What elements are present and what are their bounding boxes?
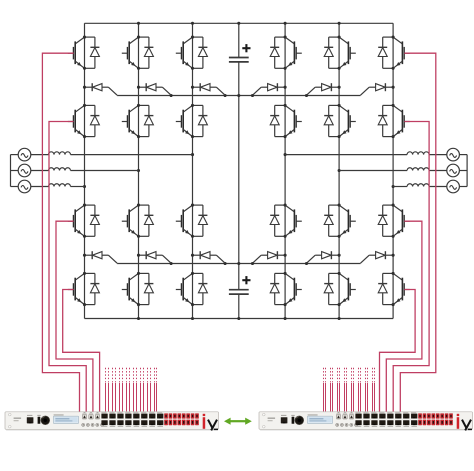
inductor L6 [407,184,429,187]
wire: right phase line 1 to leg [285,154,407,156]
wire: phase leg 6 vertical [392,23,394,318]
clamp diode D3 [191,83,225,95]
wire: left phase line 3 to leg [71,186,85,188]
wire: left phase line 2 [31,170,49,172]
wire: right phase line 2 to leg [339,170,407,172]
clamp diode D1 [83,83,117,95]
clamp diode D4 [253,83,287,95]
clamp diode D11 [307,251,341,263]
IGBT Q21 with freewheel diode [176,272,208,306]
wire: right source stub phase 3 [459,186,467,188]
IGBT Q18 with freewheel diode [378,204,410,238]
wire: phase leg 5 vertical [338,23,340,318]
controller unit 1 (left rack controller) [5,412,219,431]
IGBT Q1 with freewheel diode [68,36,100,70]
AC source V3 [18,180,31,193]
wire: left source stub phase 3 [11,186,19,188]
AC source V4 [447,148,460,161]
wire: DC-link center branch [238,23,240,57]
node: top rail junctions [137,22,341,25]
IGBT Q24 with freewheel diode [378,272,410,306]
IGBT Q17 with freewheel diode [324,204,356,238]
clamp diode D5 [307,83,341,95]
node: neutral bus junctions [170,94,309,265]
node: phase connection points [83,153,395,188]
capacitor C2 (lower DC-link) [229,276,251,294]
wire: gate drive signal right row 4 (red) [380,290,416,412]
clamp diode D8 [137,251,171,263]
wire: phase leg 2 vertical [138,23,140,318]
IGBT Q8 with freewheel diode [122,104,154,138]
wire: left source stub phase 2 [11,170,19,172]
wire: upper neutral bus [117,95,360,97]
IGBT Q23 with freewheel diode [324,272,356,306]
clamp diode D7 [83,251,117,263]
wire: phase leg 3 vertical [192,23,194,318]
wire: lower neutral bus [117,263,360,265]
IGBT Q14 with freewheel diode [122,204,154,238]
clamp diode D9 [191,251,225,263]
IGBT Q16 with freewheel diode [270,204,302,238]
wire: left phase line 3 [31,186,49,188]
wire: left source common bus [10,155,12,187]
wire: gate drive signal left row 2 (red) [49,122,86,412]
clamp diode D10 [253,251,287,263]
capacitor C1 (upper DC-link) [229,44,251,62]
wire: right source common bus [466,155,468,187]
wire: right phase line 2 [429,170,447,172]
wire: left phase line 1 [31,154,49,156]
wire: DC+ top rail [85,22,394,24]
clamp diode D6 [361,83,395,95]
wire: gate drive signal left row 1 (red) [42,53,79,412]
inductor L2 [49,168,71,171]
IGBT Q4 with freewheel diode [270,36,302,70]
wire: gate drive signal left row 4 (red) [63,290,100,412]
IGBT Q19 with freewheel diode [68,272,100,306]
green synchronization arrow [224,418,252,425]
wire: left phase line 2 to leg [71,170,139,172]
AC source V2 [18,164,31,177]
IGBT Q2 with freewheel diode [122,36,154,70]
wire: right phase line 3 to leg [393,186,407,188]
IGBT Q22 with freewheel diode [270,272,302,306]
inductor L5 [407,168,429,171]
wire: phase leg 4 vertical [284,23,286,318]
wire: phase leg 1 vertical [84,23,86,318]
wire: right phase line 1 [429,154,447,156]
wire: gate drive signal left row 3 (red) [56,221,93,412]
IGBT Q11 with freewheel diode [324,104,356,138]
wire: right communication links (dotted red pairs) [324,368,375,412]
IGBT Q9 with freewheel diode [176,104,208,138]
node: bottom rail junctions [137,317,341,320]
wire: right phase line 3 [429,186,447,188]
AC source V6 [447,180,460,193]
inductor L4 [407,152,429,155]
IGBT Q7 with freewheel diode [68,104,100,138]
AC source V5 [447,164,460,177]
wire: right source stub phase 1 [459,154,467,156]
wire: left phase line 1 to leg [71,154,193,156]
wire: left source stub phase 1 [11,154,19,156]
IGBT Q10 with freewheel diode [270,104,302,138]
wire: gate drive signal right row 2 (red) [393,122,429,412]
IGBT Q15 with freewheel diode [176,204,208,238]
wire: left communication links (dotted red pairs) [106,368,157,412]
clamp diode D12 [361,251,395,263]
IGBT Q12 with freewheel diode [378,104,410,138]
AC source V1 [18,148,31,161]
IGBT Q13 with freewheel diode [68,204,100,238]
wire: right source stub phase 2 [459,170,467,172]
inductor L3 [49,184,71,187]
controller unit 2 (right rack controller) [259,412,473,431]
IGBT Q3 with freewheel diode [176,36,208,70]
IGBT Q6 with freewheel diode [378,36,410,70]
clamp diode D2 [137,83,171,95]
wire: DC- bottom rail [85,318,394,320]
IGBT Q20 with freewheel diode [122,272,154,306]
wire: gate drive signal right row 3 (red) [386,221,422,412]
IGBT Q5 with freewheel diode [324,36,356,70]
inductor L1 [49,152,71,155]
wire: gate drive signal right row 1 (red) [400,53,436,412]
